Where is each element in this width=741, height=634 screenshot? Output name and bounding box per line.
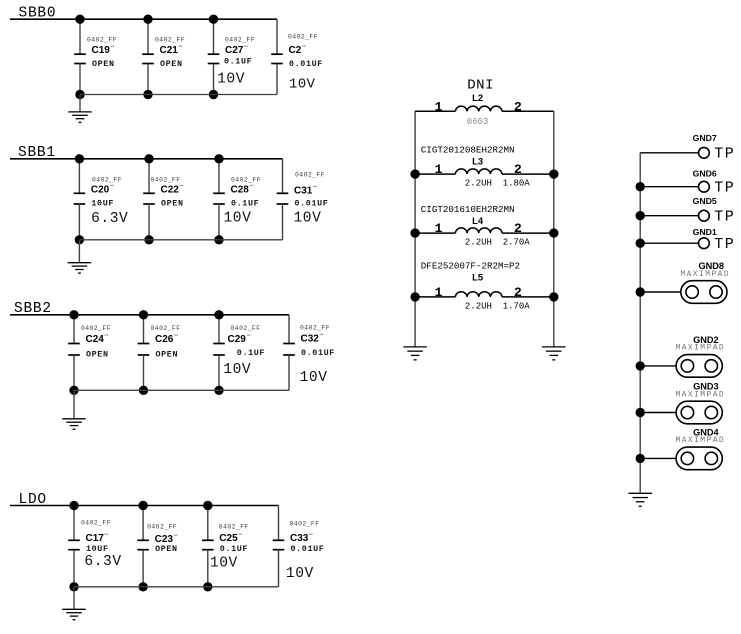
svg-text:0603: 0603	[467, 117, 489, 127]
svg-text:C26: C26	[155, 334, 174, 345]
svg-text:2.2UH 1.70A: 2.2UH 1.70A	[465, 302, 530, 312]
svg-text:0402_FF: 0402_FF	[300, 325, 330, 332]
svg-text:10V: 10V	[224, 211, 252, 227]
svg-text:0402_FF: 0402_FF	[155, 37, 185, 44]
svg-text:TP: TP	[714, 236, 735, 253]
svg-text:C33: C33	[290, 533, 309, 544]
svg-text:TP: TP	[714, 209, 735, 226]
svg-text:0402_FF: 0402_FF	[147, 524, 177, 531]
svg-text:0.1UF: 0.1UF	[237, 348, 265, 358]
svg-text:C17: C17	[86, 533, 105, 544]
svg-text:0402_FF: 0402_FF	[219, 524, 249, 531]
svg-text:CIGT201208EH2R2MN: CIGT201208EH2R2MN	[421, 145, 515, 156]
svg-text:0.01UF: 0.01UF	[295, 199, 329, 209]
svg-text:L2: L2	[472, 92, 483, 103]
svg-text:0.1UF: 0.1UF	[231, 199, 259, 209]
svg-text:0.01UF: 0.01UF	[301, 348, 335, 358]
svg-text:C19: C19	[92, 45, 111, 56]
svg-text:0.1UF: 0.1UF	[224, 57, 252, 67]
svg-text:10V: 10V	[223, 362, 251, 378]
svg-text:OPEN: OPEN	[155, 544, 178, 554]
svg-text:6.3V: 6.3V	[84, 554, 121, 570]
svg-text:0402_FF: 0402_FF	[81, 325, 111, 332]
svg-text:C20: C20	[91, 184, 110, 195]
svg-text:0402_FF: 0402_FF	[151, 325, 181, 332]
svg-text:0402_FF: 0402_FF	[92, 177, 122, 184]
svg-text:0402_FF: 0402_FF	[295, 171, 325, 178]
svg-text:DFE252007F-2R2M=P2: DFE252007F-2R2M=P2	[421, 261, 520, 272]
svg-text:1: 1	[435, 99, 443, 114]
svg-text:0.01UF: 0.01UF	[291, 544, 325, 554]
svg-text:L3: L3	[472, 155, 483, 166]
svg-text:GND5: GND5	[693, 196, 717, 206]
svg-text:OPEN: OPEN	[92, 59, 115, 69]
svg-text:0402_FF: 0402_FF	[231, 177, 261, 184]
svg-text:0402_FF: 0402_FF	[288, 34, 318, 41]
svg-text:6.3V: 6.3V	[91, 211, 128, 227]
svg-text:1: 1	[435, 162, 443, 177]
svg-text:MAXIMPAD: MAXIMPAD	[680, 270, 730, 279]
svg-text:MAXIMPAD: MAXIMPAD	[676, 436, 726, 445]
svg-text:2: 2	[514, 221, 522, 236]
svg-text:10V: 10V	[294, 211, 322, 227]
svg-text:10UF: 10UF	[86, 544, 109, 554]
svg-text:2.2UH 1.80A: 2.2UH 1.80A	[465, 179, 530, 189]
svg-text:C25: C25	[219, 533, 238, 544]
svg-text:0402_FF: 0402_FF	[87, 37, 117, 44]
svg-text:GND6: GND6	[693, 168, 717, 178]
svg-text:2: 2	[514, 285, 522, 300]
svg-text:2: 2	[514, 99, 522, 114]
svg-text:10V: 10V	[210, 556, 238, 572]
svg-text:MAXIMPAD: MAXIMPAD	[676, 390, 726, 399]
svg-text:C24: C24	[86, 334, 105, 345]
svg-text:GND7: GND7	[693, 133, 717, 143]
svg-text:10V: 10V	[217, 72, 245, 88]
svg-text:C2: C2	[289, 45, 302, 56]
svg-text:C28: C28	[231, 184, 250, 195]
svg-text:0402_FF: 0402_FF	[81, 520, 111, 527]
svg-text:OPEN: OPEN	[161, 199, 184, 209]
svg-text:0.01UF: 0.01UF	[289, 59, 323, 69]
svg-text:GND1: GND1	[693, 227, 717, 237]
svg-text:C27: C27	[225, 45, 244, 56]
svg-text:10UF: 10UF	[91, 199, 114, 209]
svg-text:10V: 10V	[300, 370, 328, 386]
svg-text:1: 1	[435, 285, 443, 300]
svg-text:C29: C29	[228, 334, 247, 345]
svg-text:TP: TP	[714, 146, 735, 163]
svg-text:10V: 10V	[286, 566, 314, 582]
svg-text:L5: L5	[472, 272, 483, 283]
svg-text:MAXIMPAD: MAXIMPAD	[676, 344, 726, 353]
svg-text:C31: C31	[294, 185, 313, 196]
svg-text:C32: C32	[301, 333, 320, 344]
svg-text:CIGT201610EH2R2MN: CIGT201610EH2R2MN	[421, 204, 515, 215]
svg-text:2.2UH 2.70A: 2.2UH 2.70A	[465, 238, 530, 248]
svg-text:C21: C21	[160, 45, 179, 56]
svg-text:TP: TP	[714, 180, 735, 197]
svg-text:C22: C22	[161, 184, 180, 195]
svg-text:10V: 10V	[289, 78, 316, 93]
svg-text:1: 1	[435, 221, 443, 236]
svg-text:0402_FF: 0402_FF	[290, 521, 320, 528]
svg-text:OPEN: OPEN	[156, 349, 179, 359]
svg-text:OPEN: OPEN	[86, 349, 109, 359]
svg-text:0402_FF: 0402_FF	[225, 37, 255, 44]
svg-text:OPEN: OPEN	[160, 59, 183, 69]
svg-text:2: 2	[514, 162, 522, 177]
svg-text:0.1UF: 0.1UF	[220, 544, 248, 554]
svg-text:0402_FF: 0402_FF	[231, 325, 261, 332]
svg-text:0402_FF: 0402_FF	[151, 177, 181, 184]
svg-text:L4: L4	[472, 215, 484, 226]
